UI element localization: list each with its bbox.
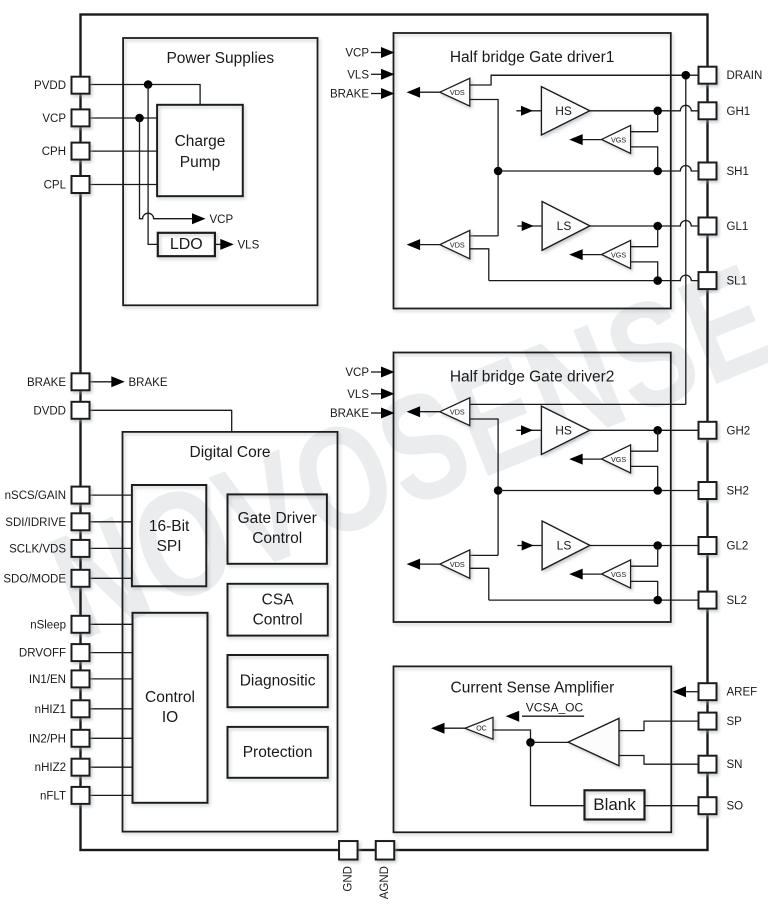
svg-text:AREF: AREF [727,687,758,699]
svg-text:SH1: SH1 [727,166,749,178]
svg-text:GL1: GL1 [727,221,749,233]
svg-text:Pump: Pump [180,154,221,171]
svg-text:SH2: SH2 [727,486,749,498]
svg-text:PVDD: PVDD [34,80,66,92]
svg-text:CSA: CSA [262,591,295,608]
svg-text:Control: Control [145,689,195,706]
svg-text:BRAKE: BRAKE [330,89,369,101]
svg-text:DRVOFF: DRVOFF [19,648,66,660]
svg-text:Half bridge Gate driver2: Half bridge Gate driver2 [450,369,615,386]
svg-text:HS: HS [555,104,572,118]
svg-text:BRAKE: BRAKE [330,408,369,420]
svg-text:VLS: VLS [238,240,260,252]
svg-text:nSleep: nSleep [30,619,66,631]
svg-text:HS: HS [555,423,572,437]
svg-text:VDS: VDS [450,408,465,417]
svg-text:SCLK/VDS: SCLK/VDS [9,543,66,555]
svg-text:GH1: GH1 [727,106,751,118]
svg-text:Current Sense Amplifier: Current Sense Amplifier [451,680,615,697]
svg-text:IN1/EN: IN1/EN [29,674,66,686]
svg-text:SN: SN [727,759,743,771]
svg-text:16-Bit: 16-Bit [149,518,190,535]
svg-text:Power Supplies: Power Supplies [166,50,274,67]
svg-text:VGS: VGS [611,570,626,579]
svg-text:IN2/PH: IN2/PH [29,733,66,745]
svg-text:VCP: VCP [210,214,234,226]
svg-text:SL2: SL2 [727,595,747,607]
svg-text:nHIZ2: nHIZ2 [35,762,66,774]
svg-text:nHIZ1: nHIZ1 [35,704,66,716]
svg-text:GL2: GL2 [727,541,749,553]
svg-text:DRAIN: DRAIN [727,70,763,82]
svg-text:Gate Driver: Gate Driver [238,510,317,527]
svg-text:IO: IO [162,709,178,726]
svg-text:OC: OC [476,725,487,732]
svg-text:VCP: VCP [42,113,66,125]
svg-text:VLS: VLS [347,389,369,401]
svg-text:Diagnositic: Diagnositic [240,673,316,690]
svg-text:nSCS/GAIN: nSCS/GAIN [5,490,66,502]
svg-text:VGS: VGS [611,135,626,144]
svg-text:Digital Core: Digital Core [190,444,271,461]
svg-text:Blank: Blank [593,795,636,814]
svg-text:VDS: VDS [450,88,465,97]
svg-text:SO: SO [727,801,744,813]
svg-text:Protection: Protection [243,744,313,761]
svg-text:Control: Control [253,611,303,628]
svg-text:AGND: AGND [379,866,391,899]
svg-text:VCP: VCP [345,48,369,60]
svg-text:GH2: GH2 [727,425,751,437]
svg-text:SPI: SPI [157,538,182,555]
svg-text:VLS: VLS [347,69,369,81]
svg-text:CPH: CPH [42,146,66,158]
svg-text:nFLT: nFLT [40,790,66,802]
svg-text:VGS: VGS [611,251,626,260]
svg-text:Half bridge Gate driver1: Half bridge Gate driver1 [450,49,615,66]
svg-text:VDS: VDS [450,560,465,569]
svg-text:GND: GND [342,866,354,892]
svg-text:SP: SP [727,716,743,728]
svg-text:SL1: SL1 [727,276,747,288]
svg-text:LS: LS [557,219,572,233]
svg-text:CPL: CPL [44,180,67,192]
svg-text:BRAKE: BRAKE [27,377,66,389]
svg-text:BRAKE: BRAKE [129,377,168,389]
svg-text:VCSA_OC: VCSA_OC [526,701,584,715]
svg-text:VCP: VCP [345,367,369,379]
svg-text:SDI/IDRIVE: SDI/IDRIVE [5,517,66,529]
svg-text:DVDD: DVDD [33,405,66,417]
svg-text:VGS: VGS [611,455,626,464]
svg-text:Charge: Charge [175,133,226,150]
svg-text:Control: Control [252,530,302,547]
svg-text:SDO/MODE: SDO/MODE [3,573,66,585]
svg-text:VDS: VDS [450,241,465,250]
svg-text:LDO: LDO [170,236,203,253]
svg-text:LS: LS [557,538,572,552]
